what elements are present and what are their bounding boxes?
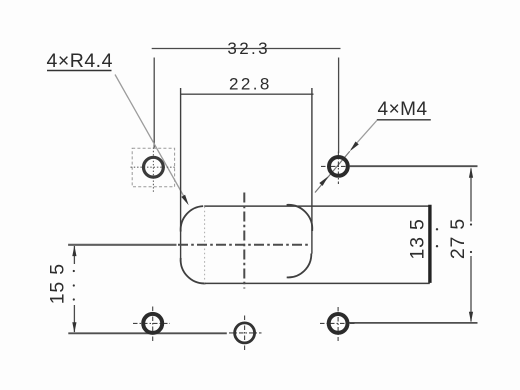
hole H3 crosshair vertical [152,307,154,342]
label 4xM4 arrowhead lower [319,176,328,186]
cutout left edge + 22.8 left extension [180,88,182,262]
label 4xM4 leader segment through hole [315,151,350,192]
svg-text:15 5: 15 5 [46,263,68,304]
cutout corner arc bottom-left [181,258,206,284]
hole H2 crosshair vertical [337,152,339,185]
dimension 27.5 line upper segment [470,169,472,222]
dimension 15.5 line upper segment [73,246,75,264]
cutout corner arc top-right [287,205,313,231]
hole H2 circle [329,157,348,176]
svg-text:4×R4.4: 4×R4.4 [47,50,113,72]
label 4xM4 underline [377,119,431,121]
cutout corner arc top-left [181,206,204,232]
label 4xR4.4 leader line [115,75,187,202]
dimension 27.5 arrow up [469,167,473,178]
dimension 27.5 line lower segment [470,256,472,322]
svg-text:27 5: 27 5 [447,218,469,259]
dimension 15.5 arrow up [72,246,76,257]
dimension 15.5 line lower segment [73,305,75,332]
dimension 32.3 extension line left [153,58,155,148]
cutout top edge (continues as side-view box top) [204,205,430,207]
hole H1 crosshair vertical [152,148,154,193]
cutout bottom edge (continues as side-view box bottom) [203,282,430,284]
label 4xR4.4 arrowhead [181,195,188,206]
hole H5 crosshair vertical [337,307,339,341]
dimension 22.8 line [180,93,313,95]
hole H3 circle [143,314,162,333]
connector line bottom hole to 27.5 dim [349,322,478,324]
dimension 27.5 dots [470,223,472,225]
cutout centerline vertical dash-dot [243,193,245,289]
cutout tangent dotted line [204,207,206,284]
connector line top hole to 27.5 dim [350,165,478,167]
hole H4 circle [235,323,255,343]
dimension 32.3 line [152,48,341,50]
cutout corner arc bottom-right [287,254,312,278]
hole H1 crosshair horizontal [131,166,177,168]
dimension 15.5 bottom reference line [68,332,227,334]
label 4xM4 arrowhead upper [350,142,359,152]
svg-text:22.8: 22.8 [229,75,272,94]
hole H1 circle [144,157,164,177]
side view thick edge bar [428,205,431,283]
hole H4 crosshair vertical [244,316,246,351]
label 4xM4 leader segment upper [351,121,377,150]
dimension 27.5 arrow down [469,312,473,323]
svg-text:32.3: 32.3 [227,39,270,58]
hole H3 bottom-left crosshair horizontal [133,322,170,324]
dimension 32.3 extension line right [338,58,340,154]
hole H2 top-right crosshair horizontal [321,165,353,167]
dimension 13.5 tick dots [436,228,438,230]
cutout centerline horizontal dash-dot [178,244,311,246]
hole H1 top-left dashed box [132,148,174,187]
svg-text:13 5: 13 5 [406,218,428,259]
hole H4 bottom-middle crosshair horizontal [229,332,262,334]
cutout right edge + 22.8 right extension [311,88,313,254]
hole H5 bottom-right crosshair horizontal [320,322,355,324]
cutout centerline horizontal solid part (15.5 top reference) [68,244,176,246]
dimension 15.5 arrow down [72,322,76,333]
label 4xR4.4 underline [47,70,112,72]
svg-text:4×M4: 4×M4 [378,99,428,120]
hole H5 circle [329,314,348,333]
dimension 15.5 dots [73,270,75,272]
